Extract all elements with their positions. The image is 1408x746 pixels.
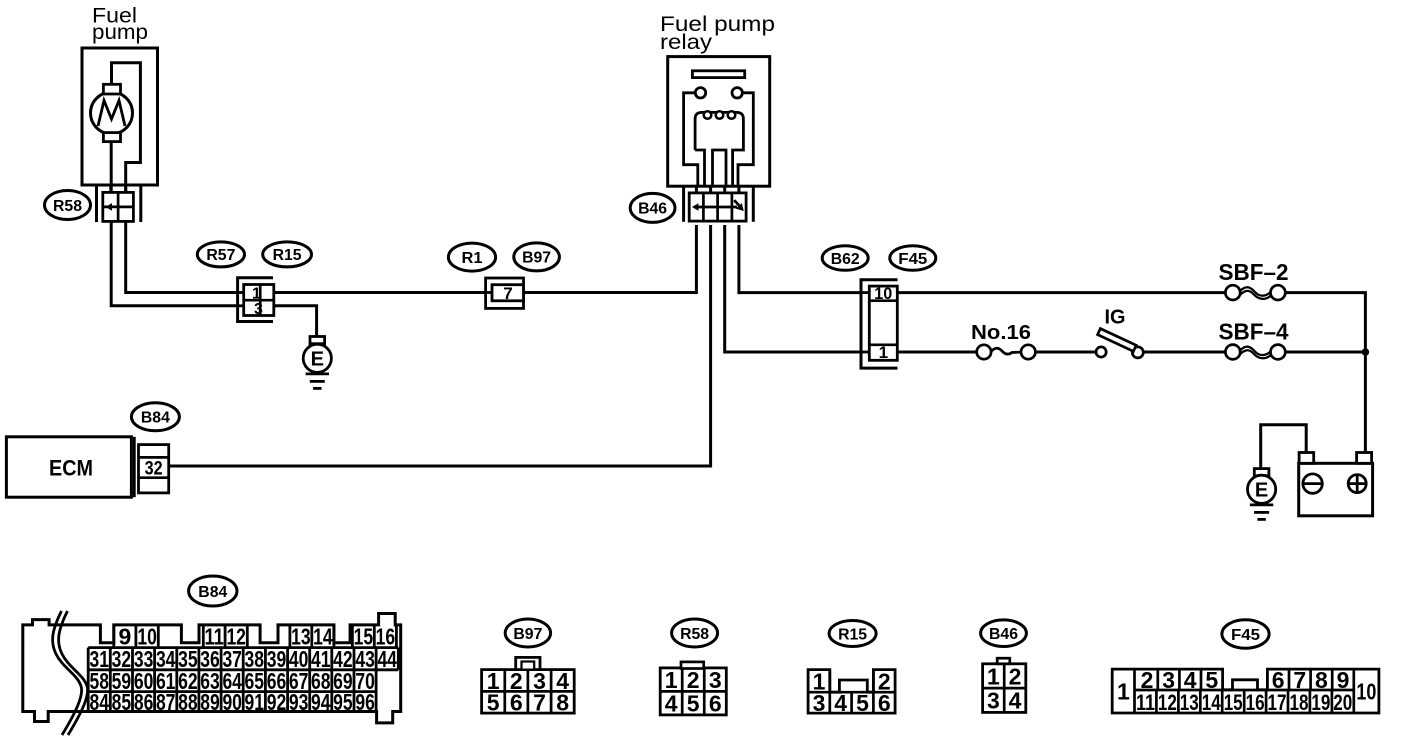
- svg-text:44: 44: [377, 646, 397, 672]
- svg-text:89: 89: [200, 689, 220, 715]
- svg-text:IG: IG: [1105, 307, 1126, 329]
- svg-text:ECM: ECM: [49, 456, 93, 481]
- svg-text:10: 10: [874, 284, 892, 303]
- svg-text:92: 92: [267, 689, 287, 715]
- svg-text:B97: B97: [513, 626, 542, 643]
- svg-text:3: 3: [987, 688, 1000, 714]
- svg-text:B84: B84: [141, 410, 170, 427]
- svg-text:R57: R57: [206, 247, 235, 264]
- svg-text:B46: B46: [638, 201, 667, 218]
- svg-text:F45: F45: [1231, 627, 1260, 644]
- svg-text:B84: B84: [198, 584, 227, 601]
- svg-text:6: 6: [878, 690, 891, 716]
- svg-text:SBF–2: SBF–2: [1219, 259, 1289, 285]
- svg-text:1: 1: [252, 285, 261, 302]
- svg-text:B62: B62: [831, 251, 860, 268]
- svg-text:6: 6: [510, 690, 523, 716]
- svg-text:32: 32: [145, 459, 163, 480]
- svg-text:B46: B46: [989, 626, 1018, 643]
- svg-text:86: 86: [134, 689, 154, 715]
- svg-text:1: 1: [1117, 678, 1130, 704]
- svg-text:4: 4: [1009, 688, 1022, 714]
- svg-text:1: 1: [879, 343, 888, 362]
- svg-text:B97: B97: [522, 250, 551, 267]
- svg-text:R15: R15: [838, 626, 867, 643]
- svg-text:94: 94: [311, 689, 331, 715]
- svg-text:E: E: [311, 349, 324, 371]
- svg-text:2: 2: [687, 667, 700, 693]
- svg-text:95: 95: [333, 689, 353, 715]
- svg-text:13: 13: [1180, 690, 1199, 715]
- svg-text:1: 1: [987, 663, 1000, 689]
- svg-text:16: 16: [1246, 690, 1265, 715]
- svg-text:R58: R58: [53, 198, 82, 215]
- svg-text:12: 12: [1158, 690, 1177, 715]
- svg-text:No.16: No.16: [971, 322, 1031, 344]
- svg-text:87: 87: [156, 689, 176, 715]
- svg-text:10: 10: [1356, 678, 1376, 704]
- svg-text:relay: relay: [660, 31, 713, 54]
- svg-text:1: 1: [665, 667, 678, 693]
- svg-text:5: 5: [856, 690, 869, 716]
- svg-text:R1: R1: [462, 250, 483, 267]
- svg-text:8: 8: [556, 690, 569, 716]
- svg-text:96: 96: [355, 689, 375, 715]
- svg-text:18: 18: [1290, 690, 1309, 715]
- svg-text:88: 88: [178, 689, 198, 715]
- svg-text:3: 3: [709, 667, 722, 693]
- svg-text:20: 20: [1333, 690, 1352, 715]
- svg-text:5: 5: [687, 691, 700, 717]
- svg-text:R58: R58: [680, 626, 709, 643]
- svg-text:5: 5: [487, 690, 500, 716]
- svg-text:19: 19: [1311, 690, 1330, 715]
- svg-text:4: 4: [834, 690, 847, 716]
- svg-text:84: 84: [90, 689, 110, 715]
- svg-text:7: 7: [533, 690, 546, 716]
- svg-text:93: 93: [289, 689, 309, 715]
- svg-text:90: 90: [222, 689, 242, 715]
- svg-text:17: 17: [1268, 690, 1287, 715]
- svg-text:pump: pump: [92, 21, 148, 44]
- svg-text:15: 15: [1224, 690, 1243, 715]
- svg-text:F45: F45: [898, 251, 927, 268]
- svg-text:7: 7: [503, 284, 512, 303]
- svg-text:4: 4: [665, 691, 678, 717]
- svg-text:3: 3: [813, 690, 826, 716]
- svg-text:14: 14: [1202, 690, 1222, 715]
- svg-text:SBF–4: SBF–4: [1219, 319, 1289, 345]
- svg-text:85: 85: [112, 689, 132, 715]
- svg-text:E: E: [1255, 480, 1268, 502]
- svg-text:91: 91: [245, 689, 265, 715]
- svg-text:6: 6: [709, 691, 722, 717]
- svg-text:3: 3: [254, 301, 263, 318]
- svg-text:11: 11: [1136, 690, 1155, 715]
- svg-text:R15: R15: [273, 247, 302, 264]
- svg-text:2: 2: [1009, 663, 1022, 689]
